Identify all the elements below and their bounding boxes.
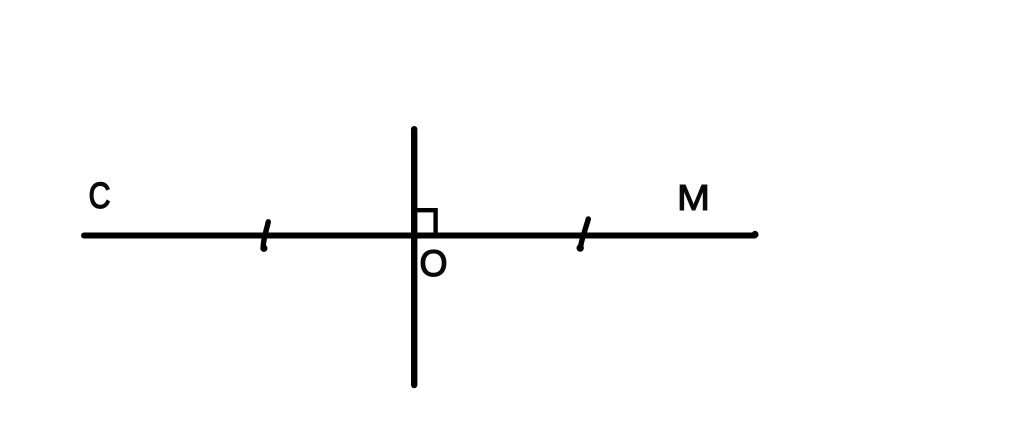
svg-text:C: C [89,177,111,217]
svg-text:M: M [677,179,710,219]
svg-text:O: O [419,243,447,284]
